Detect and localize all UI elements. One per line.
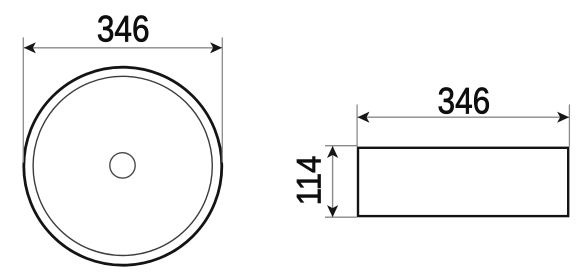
arrow right [557,112,569,123]
extension line bottom [325,216,357,218]
extension line right [221,37,223,162]
arrow right [210,42,222,53]
svg-text:346: 346 [438,80,491,122]
arrow down [327,205,338,217]
arrow up [327,146,338,158]
drain hole circle [110,153,135,178]
svg-text:346: 346 [97,8,150,50]
arrow left [24,42,36,53]
inner circle (basin bowl) [33,76,212,255]
dimension line [24,47,222,49]
arrow left [358,112,370,123]
extension line left [22,37,24,162]
extension line right [568,105,570,147]
rectangle body [358,148,568,216]
extension line left [356,105,358,147]
outer circle (basin rim) [24,67,222,265]
svg-text:114: 114 [291,156,329,206]
dimension line [332,146,334,217]
extension line top [325,145,357,147]
dimension line [358,116,569,118]
